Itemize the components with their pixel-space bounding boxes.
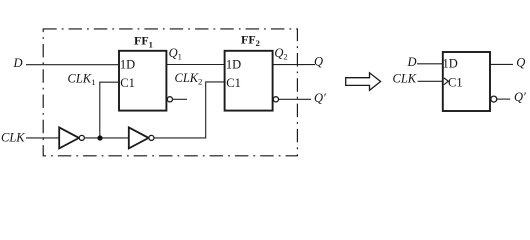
svg-text:1D: 1D <box>120 57 135 71</box>
svg-text:Q1: Q1 <box>169 46 182 62</box>
svg-text:Q′: Q′ <box>314 91 326 105</box>
svg-text:D: D <box>407 55 417 69</box>
svg-text:Q′: Q′ <box>514 90 526 104</box>
svg-text:CLK: CLK <box>1 131 25 145</box>
svg-text:D: D <box>13 56 23 70</box>
svg-text:CLK2: CLK2 <box>175 71 203 87</box>
svg-text:CLK1: CLK1 <box>68 71 96 87</box>
svg-text:C1: C1 <box>120 76 135 90</box>
svg-text:Q2: Q2 <box>274 46 287 62</box>
svg-text:FF1: FF1 <box>134 34 153 50</box>
svg-text:1D: 1D <box>226 57 241 71</box>
svg-text:C1: C1 <box>226 76 241 90</box>
svg-text:1D: 1D <box>443 56 458 70</box>
svg-text:FF2: FF2 <box>241 33 260 49</box>
svg-text:Q: Q <box>516 55 525 69</box>
svg-text:Q: Q <box>314 54 323 68</box>
svg-text:C1: C1 <box>448 75 463 89</box>
svg-text:CLK: CLK <box>393 72 417 86</box>
